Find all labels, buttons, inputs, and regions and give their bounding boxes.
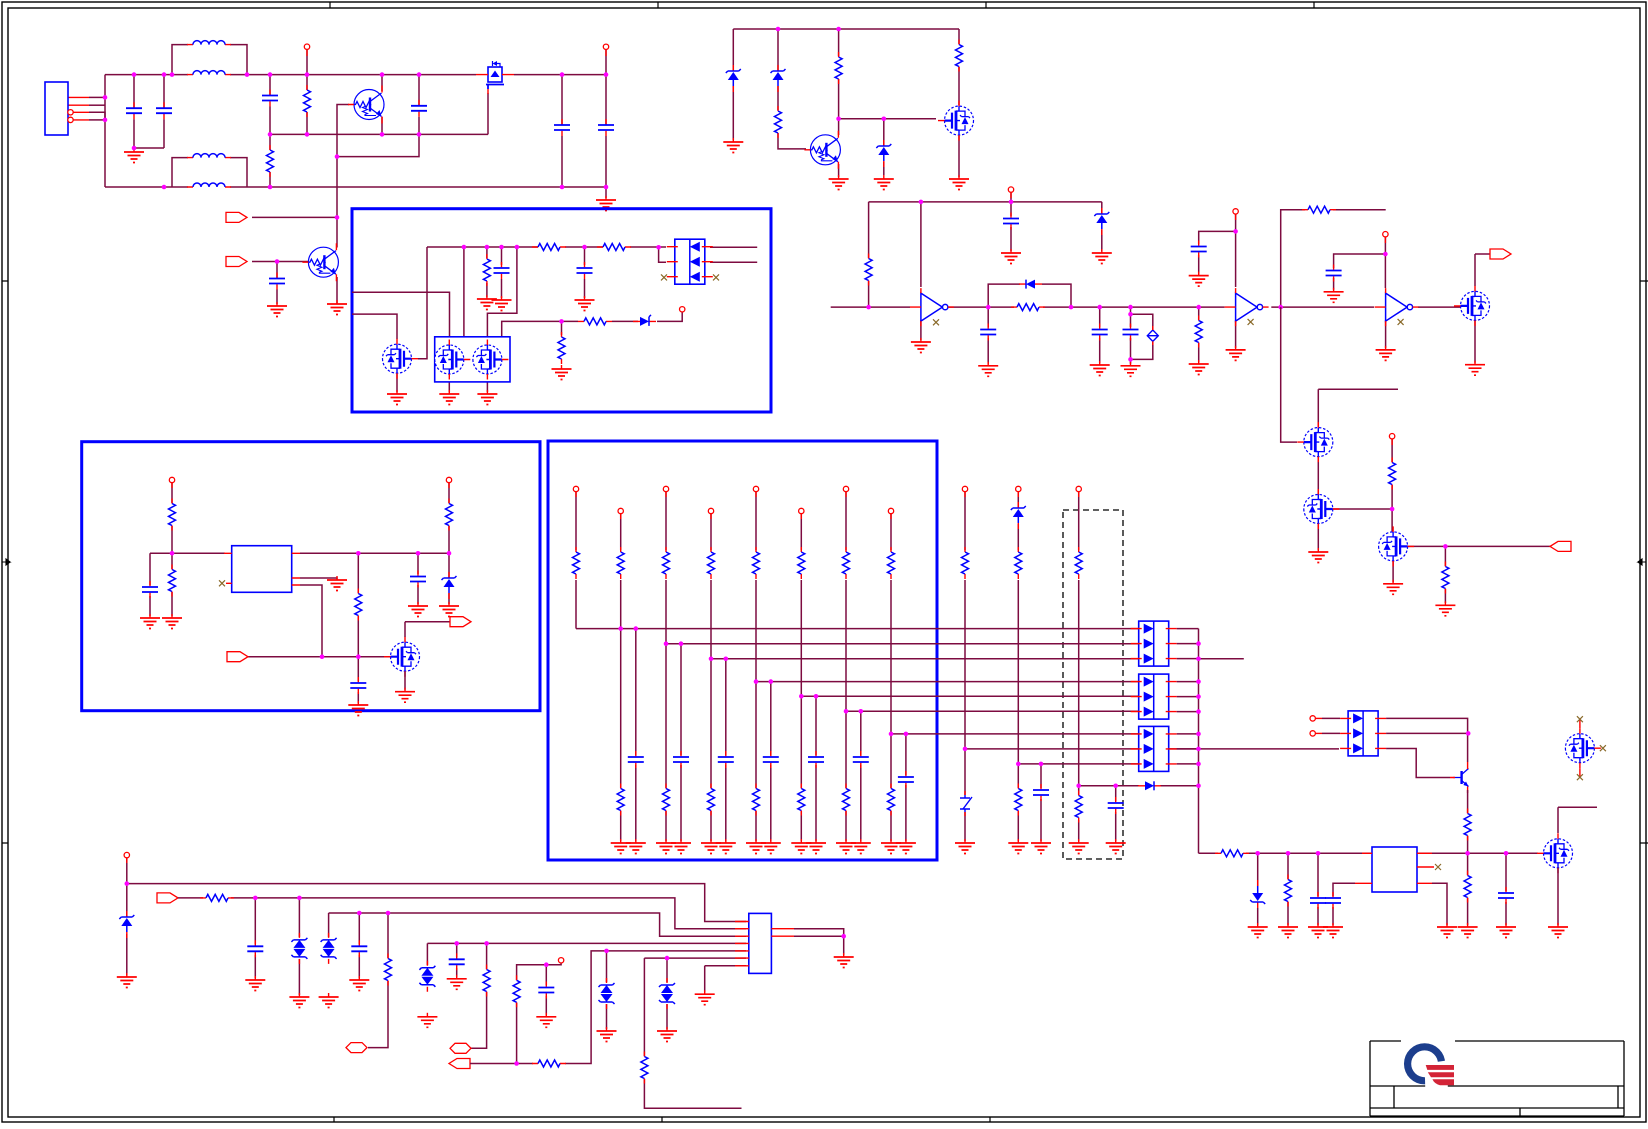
capacitor C25: [763, 751, 779, 768]
wire bus row 7: [891, 733, 1139, 735]
zener D5: [726, 65, 741, 92]
wire R22 leg: [368, 913, 388, 1048]
ground G2: [596, 196, 616, 211]
diode array DA3: [1131, 674, 1177, 719]
capacitor C13: [1123, 324, 1139, 341]
pin column 10: [1016, 486, 1021, 497]
pin P6: [1383, 232, 1388, 244]
wire R15 leg: [1391, 439, 1393, 531]
wire power rail: [1199, 852, 1539, 854]
wire R16 leg: [1444, 546, 1446, 603]
resistor R16: [1442, 562, 1449, 594]
no-connect X4: [1248, 319, 1254, 325]
ground G37: [1278, 923, 1298, 938]
wire M8 source: [1557, 868, 1559, 925]
resistor R38 lower: [888, 784, 895, 816]
port IN1 arrow: [226, 212, 247, 222]
resistor R18: [1215, 850, 1249, 857]
capacitor C7: [269, 273, 285, 290]
ground G54: [695, 990, 715, 1005]
wire column 9: [964, 492, 966, 841]
right center arrow: [1638, 559, 1646, 565]
resistor R37 lower: [843, 784, 850, 816]
pin column 11: [1076, 486, 1081, 497]
capacitor C20: [351, 940, 367, 957]
wire bus row 3: [711, 658, 1139, 660]
resistor R26: [641, 1052, 648, 1084]
diode array DA1: [667, 239, 713, 284]
ground G61: [348, 701, 368, 716]
pin P4: [1008, 187, 1013, 198]
wire column 2 upper: [620, 514, 622, 550]
ground G25: [1324, 288, 1344, 303]
wire D7 leg: [883, 119, 885, 175]
ground G48: [349, 976, 369, 991]
ground G24: [1226, 346, 1246, 361]
wire TVS3 leg: [606, 951, 608, 1029]
wire U1B gnd: [1235, 320, 1237, 348]
wire R8 leg: [838, 29, 840, 119]
wire cap stub 8: [905, 734, 907, 841]
ground stub 2: [626, 839, 646, 854]
wire C4 column: [418, 75, 420, 135]
wire column 6 upper: [800, 514, 802, 550]
port PB arrow: [449, 1059, 470, 1069]
pin P10: [124, 852, 129, 863]
capacitor C11: [980, 324, 996, 341]
ground G10: [477, 390, 497, 405]
ground G41: [1458, 923, 1478, 938]
resistor R6: [578, 318, 612, 325]
TVS D17: [599, 978, 615, 1009]
ground G45: [245, 976, 265, 991]
wire column 2 lower: [620, 580, 622, 841]
wire Q3 collector: [838, 119, 840, 135]
ground G49: [417, 1013, 437, 1028]
resistor R25: [513, 975, 520, 1007]
capacitor C8: [494, 262, 510, 279]
junction dots box2: [170, 551, 452, 659]
ground G56: [140, 614, 160, 629]
diode array DA2: [1131, 621, 1177, 666]
wire C1 column: [133, 75, 135, 150]
ground stub 7: [851, 839, 871, 854]
ground G38: [1308, 923, 1328, 938]
wire R19 leg: [1287, 853, 1289, 925]
ground column 8: [881, 839, 901, 854]
wire D19 leg: [448, 553, 450, 604]
ground G8: [387, 390, 407, 405]
wire TVS4 leg: [666, 958, 668, 1029]
diode D9: [1019, 280, 1042, 289]
inverter U1B: [1225, 288, 1269, 326]
wire rail2 left leg: [868, 202, 870, 307]
zener D8: [1094, 208, 1109, 235]
wire M5 drain: [1318, 389, 1398, 427]
wire C11 leg: [987, 307, 989, 364]
transistor Q3: [804, 131, 840, 169]
zener D12: [1250, 880, 1265, 908]
wire R9 leg: [958, 29, 960, 105]
zener D10: [1011, 502, 1026, 529]
title block outline: [1370, 1041, 1624, 1116]
U3 pin leads: [224, 553, 300, 585]
wire diode array out1: [710, 246, 757, 248]
wire fb row: [248, 656, 390, 658]
capacitor C12: [1092, 324, 1108, 341]
zener D7: [876, 140, 891, 167]
zener D4: [633, 315, 656, 326]
pin P7: [1389, 434, 1394, 446]
wire D4r3 out: [1386, 749, 1450, 778]
regulator U3: [232, 546, 292, 593]
wire choke bottom loop: [172, 158, 247, 187]
module box B1: [352, 209, 771, 412]
ground G18: [911, 338, 931, 353]
port DM1: [346, 1043, 367, 1053]
wire cap stub 6: [815, 696, 817, 841]
wire row3 extension: [1199, 658, 1244, 660]
ground G5: [477, 295, 497, 310]
wire bus row 4: [756, 681, 1139, 683]
wire M8 drain: [1558, 807, 1597, 833]
ground G29: [1383, 580, 1403, 595]
pin column 3: [663, 486, 668, 497]
wire C18 leg: [1505, 853, 1507, 925]
pin column 7: [843, 486, 848, 497]
ground G60: [439, 602, 459, 617]
pin column 9: [962, 486, 967, 497]
wire bottom rail: [105, 186, 606, 188]
pin P3: [680, 307, 685, 312]
wire bus7: [705, 966, 746, 992]
capacitor C3: [262, 90, 278, 107]
no-connect X6: [1435, 864, 1441, 870]
wire C21 leg: [456, 943, 458, 976]
ground G23: [1189, 272, 1209, 287]
capacitor C26: [808, 751, 824, 768]
TVS D14: [291, 933, 307, 964]
pin column 5: [753, 486, 758, 497]
wire box1 feed1: [352, 292, 450, 340]
wire P13 leg: [448, 483, 450, 554]
wire Q1 collector rise: [381, 75, 383, 91]
TVS D15: [321, 933, 337, 964]
wire C12 leg: [1099, 307, 1101, 363]
wire column 5 upper: [755, 492, 757, 550]
resistor R24: [532, 1060, 566, 1067]
ground G47: [319, 993, 339, 1008]
ground G11: [552, 365, 572, 380]
wire R20 leg: [1467, 853, 1469, 925]
resistor R3: [532, 244, 566, 251]
junction dots top-left: [103, 72, 609, 264]
ground G31: [955, 839, 975, 854]
wire C19 leg: [254, 898, 256, 978]
pin column 8: [888, 508, 893, 519]
zener D6: [771, 65, 786, 92]
port DM2: [450, 1043, 471, 1053]
wire box1 feed2 M1 drain: [352, 314, 397, 339]
inductor L2b: [187, 183, 231, 187]
junction dots bus rows: [618, 626, 908, 736]
ground G59: [408, 602, 428, 617]
capacitor C6: [598, 119, 614, 136]
ground G57: [162, 614, 182, 629]
junction dots box1: [462, 245, 661, 324]
ground stub 6: [806, 839, 826, 854]
pin P12: [169, 477, 174, 488]
wire cap stub 4: [725, 659, 727, 841]
wire J1 pin1: [89, 96, 105, 98]
wire box1 left leg to M1 gate: [418, 247, 427, 359]
wire gate row M3: [839, 118, 936, 120]
wire IC pin to C17: [1333, 883, 1355, 925]
inductor L1b: [187, 71, 231, 75]
ground G3: [267, 302, 287, 317]
wire reg gnd: [300, 578, 337, 579]
wire bus row 10: [1079, 785, 1199, 787]
wire Q1 base run: [337, 105, 419, 243]
pin column 4: [708, 508, 713, 519]
resistor R20: [1464, 871, 1471, 903]
resistor R21: [200, 894, 234, 901]
wire R13 loop: [1281, 210, 1386, 307]
logo Q mark: [1404, 1043, 1454, 1090]
wire C2 column: [134, 75, 164, 148]
ground G22: [1189, 360, 1209, 375]
wire C7 column: [276, 262, 278, 305]
capacitor C19: [247, 940, 263, 957]
wire Q2 base: [252, 261, 308, 263]
ground G62: [395, 688, 415, 703]
MOSFET M4: [1454, 286, 1490, 326]
transistor Q2: [302, 243, 338, 281]
port CTRL arrow: [1550, 541, 1571, 551]
wire cap stub 5: [770, 682, 772, 841]
wire C5 column: [561, 75, 563, 187]
ground G21: [1121, 362, 1141, 377]
resistor R27 pull-up: [843, 547, 850, 579]
resistor R10: [775, 106, 782, 138]
inverter U1C: [1375, 288, 1419, 326]
resistor R32 lower: [617, 784, 624, 816]
resistor R34 lower: [708, 784, 715, 816]
wire bus row 9: [1018, 763, 1139, 765]
capacitor C1: [126, 102, 142, 119]
wire P12 leg: [171, 483, 173, 554]
pin column 1: [573, 486, 578, 497]
resistor R35: [446, 499, 453, 531]
wire M7 source: [1392, 561, 1394, 582]
wire M7 gate row: [1408, 545, 1550, 547]
ground G6: [492, 296, 512, 311]
wire J1 pin4: [89, 119, 105, 121]
wire P10 leg: [126, 858, 128, 975]
pin P1: [304, 44, 309, 56]
ground G50: [447, 975, 467, 990]
pin P5: [1233, 209, 1238, 220]
ground G1: [124, 148, 144, 163]
resistor R23 pull-up: [663, 547, 670, 579]
wire M10 source: [404, 672, 406, 690]
left center arrow: [2, 559, 10, 565]
wire column 4 lower: [710, 580, 712, 841]
wire D5 leg: [732, 29, 734, 140]
ground G32: [1008, 839, 1028, 854]
resistor R31 lower: [1015, 784, 1022, 816]
resistor R32 pull-up: [1075, 547, 1082, 579]
dual MOSFET box M2: [435, 337, 510, 382]
resistor R1: [304, 85, 311, 117]
wire reg input row: [150, 553, 225, 616]
capacitor C27: [853, 751, 869, 768]
wire J1 pin2: [89, 104, 105, 106]
wire C24 leg: [417, 553, 419, 604]
current source CS1: [1147, 326, 1158, 345]
ground G9: [439, 390, 459, 405]
resistor R34: [355, 589, 362, 621]
transistor Q4: [1450, 762, 1469, 793]
ground column 7: [836, 839, 856, 854]
wire C3/R2 column: [269, 75, 271, 187]
MOSFET M6: [1304, 489, 1340, 529]
ground column 6: [791, 839, 811, 854]
wire cap stub 7: [860, 711, 862, 841]
capacitor C5: [554, 119, 570, 136]
capacitor C4: [411, 100, 427, 117]
wire cap stub 10: [1040, 764, 1042, 841]
module box B3: [548, 441, 937, 860]
wire C23 leg: [149, 553, 151, 616]
junction dots stack: [1390, 507, 1448, 549]
wire Q3 emitter: [838, 164, 840, 177]
wire current src loop: [1131, 314, 1153, 359]
wire column 11: [1078, 492, 1080, 841]
wire column 7 upper: [845, 492, 847, 550]
transistor Q1: [348, 86, 384, 124]
wire D4 pins: [1322, 718, 1340, 733]
capacitor C30: [1033, 784, 1049, 801]
wire box1 rail: [427, 246, 666, 248]
wire column 6 lower: [800, 580, 802, 841]
resistor R30 pull-up: [1015, 547, 1022, 579]
module box B2: [82, 442, 540, 711]
wire J2 right pins: [794, 929, 844, 955]
capacitor C31: [1108, 797, 1124, 814]
MOSFET M10: [384, 637, 420, 677]
ground G16: [1001, 249, 1021, 264]
connector J2: [749, 913, 772, 973]
wire M6 source: [1317, 524, 1319, 550]
no-connect X7: [219, 580, 225, 586]
wire R25 leg: [517, 963, 562, 1064]
J2 left pin leads: [735, 922, 749, 966]
capacitor C23: [673, 751, 689, 768]
wire C16 leg: [1317, 853, 1319, 925]
ground G42: [1496, 923, 1516, 938]
wire D12 leg: [1257, 853, 1259, 925]
ground G19: [978, 362, 998, 377]
ground column 2: [611, 839, 631, 854]
ground stub 5: [761, 839, 781, 854]
wire M10 drain to port: [405, 622, 450, 637]
wire M2b drain path: [487, 247, 517, 340]
MOSFET M7: [1379, 526, 1415, 566]
capacitor C24: [410, 571, 426, 588]
ground G12: [723, 138, 743, 153]
wire cap stub 2: [635, 629, 637, 841]
capacitor C16: [1310, 892, 1326, 909]
MOSFET M8: [1537, 833, 1573, 873]
wire collector vertical: [1198, 629, 1200, 854]
diode array DA4: [1131, 726, 1177, 771]
ground G55: [834, 953, 854, 968]
ground G40: [1437, 923, 1457, 938]
wire main line: [831, 306, 1461, 308]
port OUT1 arrow: [1490, 249, 1511, 259]
capacitor C10: [1003, 213, 1019, 230]
pin J1-4 circle: [68, 117, 73, 122]
capacitor C22: [538, 982, 554, 999]
MOSFET M2b: [473, 340, 509, 380]
no-connect X3: [933, 319, 939, 325]
MOSFET M2a: [435, 340, 471, 380]
resistor R26 pull-up: [798, 547, 805, 579]
ground G58: [327, 576, 347, 591]
ground stub 8: [896, 839, 916, 854]
resistor R17: [1464, 809, 1471, 841]
wire PMOS gate drop: [487, 93, 489, 134]
resistor R35 lower: [753, 784, 760, 816]
capacitor C15: [1326, 265, 1342, 282]
wire top rail net VIN: [105, 74, 606, 76]
wire bus row 8: [965, 748, 1339, 750]
wire column 3 lower: [665, 580, 667, 841]
switch SW1: [960, 791, 972, 816]
zener D19: [442, 572, 457, 599]
resistor R28 pull-up: [888, 547, 895, 579]
wire C22 leg: [545, 965, 547, 1015]
wire column 1 upper: [575, 492, 577, 550]
junction dots power rail: [1255, 851, 1508, 856]
ground stub 4: [716, 839, 736, 854]
ground G36: [1248, 923, 1268, 938]
junction dots collector: [1196, 641, 1201, 788]
wire column 1 to row1: [575, 580, 577, 629]
wire Q4 emitter leg: [1467, 790, 1469, 853]
ground column 3: [656, 839, 676, 854]
resistor R24 pull-up: [708, 547, 715, 579]
wire R34 leg: [357, 553, 359, 656]
wire diode array out2: [710, 261, 757, 263]
pin J1-3 circle: [68, 110, 73, 115]
junction dots right columns: [963, 747, 1118, 788]
ground stub 3: [671, 839, 691, 854]
wire bus5 lower: [470, 951, 746, 1064]
resistor R19: [1285, 875, 1292, 907]
U2 pin leads: [1355, 853, 1434, 883]
wire cap stub 3: [680, 644, 682, 841]
ground G52: [597, 1027, 617, 1042]
wire U1C gnd: [1385, 320, 1387, 348]
wire M2 sources: [449, 375, 487, 393]
wire C20 leg: [358, 913, 360, 978]
wire R6 leg: [561, 321, 563, 335]
port PA arrow: [157, 893, 178, 903]
wire diode array right leads: [1177, 629, 1199, 764]
capacitor C24: [718, 751, 734, 768]
